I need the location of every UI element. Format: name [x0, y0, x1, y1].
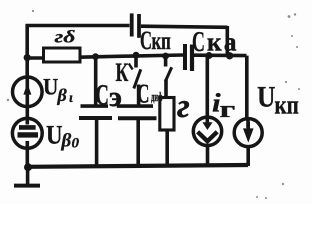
- svg-text:диф: диф: [151, 91, 163, 105]
- svg-text:гδ: гδ: [55, 26, 76, 47]
- svg-text:U: U: [46, 121, 63, 150]
- svg-text:кп: кп: [275, 91, 300, 120]
- svg-text:0: 0: [72, 136, 80, 152]
- svg-text:С: С: [192, 27, 205, 58]
- svg-text:U: U: [257, 81, 275, 114]
- svg-text:г: г: [177, 88, 190, 124]
- svg-text:э: э: [109, 82, 122, 113]
- svg-text:U: U: [43, 74, 58, 100]
- svg-text:С: С: [96, 79, 109, 111]
- svg-text:кп: кп: [152, 26, 171, 54]
- svg-text:β: β: [57, 85, 68, 105]
- svg-text:С: С: [137, 79, 149, 109]
- svg-text:ка: ка: [207, 27, 239, 57]
- svg-text:С: С: [140, 26, 152, 55]
- svg-text:ι: ι: [69, 91, 73, 106]
- svg-text:β: β: [61, 131, 72, 152]
- svg-text:г: г: [219, 96, 235, 122]
